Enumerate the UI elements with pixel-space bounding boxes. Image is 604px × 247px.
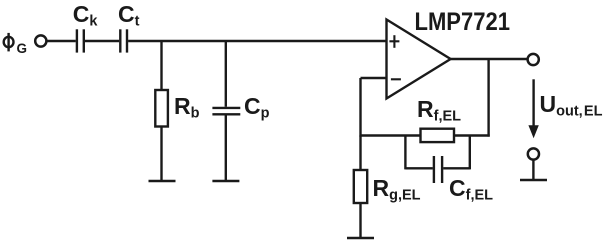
op-amp U1 xyxy=(387,20,451,99)
capacitor Cf,EL xyxy=(434,156,442,183)
reference terminal xyxy=(528,148,539,159)
wire feedback left vertical xyxy=(359,78,361,137)
svg-text:Rb: Rb xyxy=(174,93,200,122)
svg-text:LMP7721: LMP7721 xyxy=(415,8,511,36)
svg-text:Cf,EL: Cf,EL xyxy=(449,175,493,204)
wire input to Ck xyxy=(48,40,76,42)
resistor Rg,EL xyxy=(354,170,367,203)
wire Ct to op-amp xyxy=(128,40,386,42)
resistor Rb xyxy=(155,90,168,127)
wire Rb branch xyxy=(160,41,162,90)
wire Cf bottom left xyxy=(405,167,432,169)
wire feedback rail left xyxy=(361,134,421,136)
svg-text:G: G xyxy=(17,41,28,56)
svg-text:Rf,EL: Rf,EL xyxy=(417,96,461,125)
ground Rg xyxy=(347,237,374,239)
ground Rb xyxy=(149,180,176,182)
wire Cp branch xyxy=(225,41,227,107)
wire Rb to ground xyxy=(160,127,162,182)
wire Rg branch xyxy=(359,136,361,171)
capacitor Ct xyxy=(120,29,127,52)
svg-text:Cp: Cp xyxy=(244,93,270,122)
wire Rg to ground xyxy=(359,203,361,238)
wire output xyxy=(451,58,527,60)
ground Cp xyxy=(212,180,239,182)
wire feedback rail right xyxy=(454,134,490,136)
wire Cf bottom right xyxy=(443,167,470,169)
node phi_G label xyxy=(4,33,14,52)
svg-text:Rg,EL: Rg,EL xyxy=(373,175,421,204)
capacitor Ck xyxy=(77,29,84,52)
wire Cf right vertical xyxy=(469,136,471,170)
svg-text:Ck: Ck xyxy=(73,1,99,30)
resistor Rf,EL xyxy=(421,129,455,142)
wire Cf left vertical xyxy=(404,136,406,170)
capacitor Cp xyxy=(212,108,240,114)
wire inverting input xyxy=(361,77,387,79)
wire Ck to Ct xyxy=(85,40,119,42)
wire Cp to ground xyxy=(225,115,227,181)
svg-text:Uout, EL: Uout, EL xyxy=(540,91,603,120)
wire reference stem xyxy=(532,161,534,181)
wire output junction down xyxy=(487,59,489,137)
output terminal xyxy=(528,54,539,65)
ground reference xyxy=(520,179,547,181)
input terminal xyxy=(35,35,46,46)
arrow Uout,EL xyxy=(528,79,538,138)
svg-text:Ct: Ct xyxy=(118,1,140,30)
